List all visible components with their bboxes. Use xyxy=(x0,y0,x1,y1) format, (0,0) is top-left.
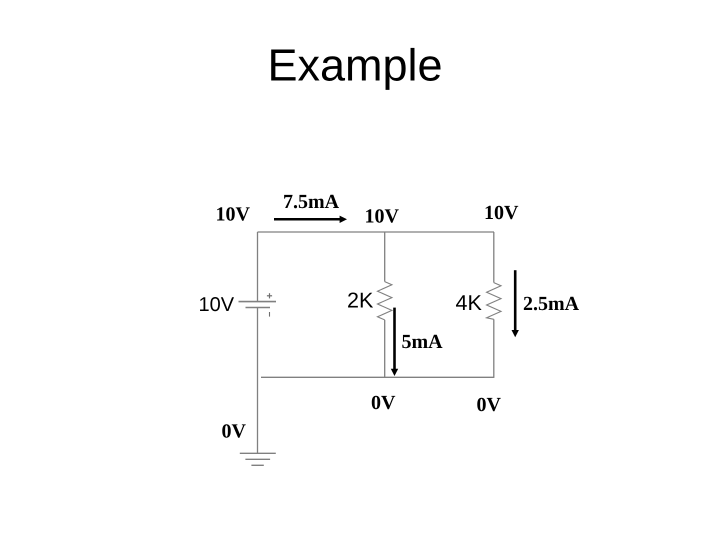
wire middle vertical lower xyxy=(384,320,386,377)
svg-text:5mA: 5mA xyxy=(402,331,444,353)
battery plus sign xyxy=(267,293,272,298)
resistor 2K xyxy=(378,282,392,320)
svg-text:4K: 4K xyxy=(456,291,483,315)
current arrow 2.5mA xyxy=(512,270,519,337)
battery V1 bottom plate xyxy=(246,307,271,309)
svg-text:10V: 10V xyxy=(365,205,400,227)
svg-text:Example: Example xyxy=(268,40,443,91)
wire bottom rail xyxy=(261,376,494,378)
svg-text:0V: 0V xyxy=(477,394,502,416)
battery V1 top plate xyxy=(239,301,277,303)
current arrow 5mA xyxy=(391,308,398,376)
svg-text:2.5mA: 2.5mA xyxy=(523,293,580,315)
wire middle vertical upper xyxy=(384,232,386,282)
wire right vertical lower xyxy=(493,319,495,378)
wire right vertical upper xyxy=(493,232,495,283)
battery minus sign xyxy=(269,312,271,317)
wire left vertical lower xyxy=(257,308,259,454)
wire left vertical upper xyxy=(257,232,259,302)
wire top rail xyxy=(258,231,495,233)
svg-text:0V: 0V xyxy=(222,421,247,443)
svg-text:7.5mA: 7.5mA xyxy=(283,191,340,213)
ground xyxy=(240,453,276,465)
current arrow 7.5mA xyxy=(274,216,347,223)
svg-text:10V: 10V xyxy=(216,203,251,225)
svg-text:0V: 0V xyxy=(371,392,396,414)
svg-text:2K: 2K xyxy=(347,289,374,313)
svg-text:10V: 10V xyxy=(199,294,235,316)
resistor 4K xyxy=(487,283,501,320)
svg-text:10V: 10V xyxy=(484,202,519,224)
